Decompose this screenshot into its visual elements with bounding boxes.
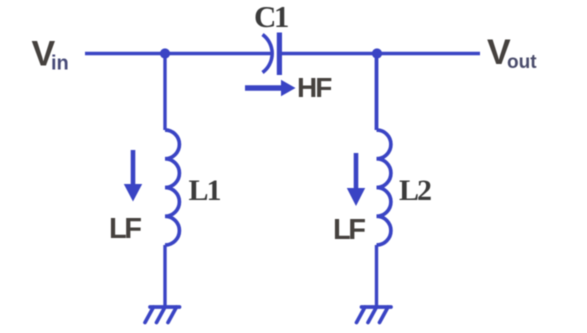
svg-text:in: in (51, 53, 69, 75)
svg-text:C1: C1 (254, 0, 288, 34)
svg-text:LF: LF (333, 214, 365, 246)
svg-text:out: out (507, 52, 537, 73)
svg-text:L2: L2 (399, 174, 431, 207)
svg-text:LF: LF (109, 213, 141, 245)
svg-text:HF: HF (297, 72, 332, 103)
svg-text:L1: L1 (189, 174, 221, 207)
